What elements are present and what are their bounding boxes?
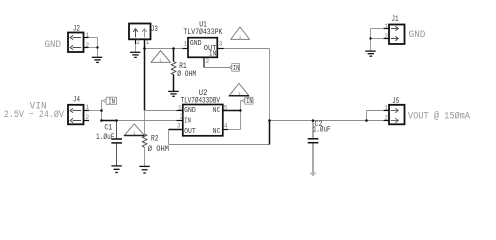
pin stub U2 pin4 [223,129,228,131]
wire U1 pin3 OUT right [224,48,270,50]
wire U1 pin2 to IN flag [204,67,230,69]
svg-text:GND: GND [409,30,426,41]
junction C2 on VOUT [312,119,315,122]
svg-text:1: 1 [86,104,90,111]
wire J5 pin1 [367,110,384,112]
junction R1 top [172,47,175,50]
ground arrow below C2 [310,173,316,176]
svg-text:J3: J3 [151,24,158,34]
ground below C1 [111,166,121,173]
pin stub U1 pin2 [203,57,205,67]
connector J1 body [389,25,405,45]
wire J1 to ground [370,39,372,51]
junction dots [96,37,371,122]
pin stubs U2 pin1 pin2 [177,110,183,112]
wire U2 pin1 GND [145,110,176,112]
svg-text:IN: IN [108,98,115,106]
svg-text:VOUT @ 15ØmA: VOUT @ 15ØmA [408,110,470,122]
capacitor C1 leads [117,121,314,172]
svg-text:2: 2 [86,114,90,121]
junction J3/GND wire [143,47,146,50]
svg-text:TLV7Ø433DBV: TLV7Ø433DBV [181,96,221,106]
wire U2 OUT down [168,130,170,145]
pin stubs J2 [84,37,89,39]
wire J2 pin1 to vertical [88,29,384,166]
pin stub U1 pin3 [218,48,224,50]
wire U2 pin5 NC (thick) [223,110,241,112]
junction NC tie [239,109,241,111]
pin stubs J5 [384,110,389,112]
svg-text:GND: GND [45,40,62,51]
net flag IN above U2 [242,97,253,106]
wire J2 vertical tie [97,38,99,48]
wire U2 pin3 OUT (thick) [169,129,183,131]
svg-text:IN: IN [233,65,239,73]
IC U2 body [183,105,223,136]
capacitor C2 plates [308,139,319,143]
svg-text:Ø OHM: Ø OHM [177,69,196,79]
svg-text:2: 2 [86,42,90,49]
junction J4 tie VIN [100,119,103,122]
svg-text:1: 1 [239,34,242,40]
svg-text:1: 1 [184,41,188,48]
junction J4 pin1 [100,109,103,112]
svg-text:GND: GND [190,40,202,48]
svg-text:GND: GND [184,107,196,115]
connector J3 body [129,24,151,40]
svg-text:2: 2 [136,39,140,46]
svg-text:1: 1 [133,131,136,137]
wire IN flag stub near J4 [102,101,104,120]
wire J3 pin2 to ground [135,44,137,53]
ground below J3 [130,52,140,57]
ground below R2 [139,166,149,173]
svg-text:2: 2 [384,114,388,121]
svg-text:J1: J1 [392,14,399,24]
net flag IN near U1 pin2 [229,64,239,74]
resistor R1 bottom lead [173,75,175,92]
svg-text:1: 1 [86,32,90,39]
junction VOUT node [268,119,271,122]
wire J2 pin2 to vertical [88,47,97,49]
wire VOUT column below junction (thick) [269,121,271,145]
wire J1 pin1 [371,28,384,30]
svg-text:2: 2 [384,33,388,40]
resistor R2 zigzag [142,134,147,148]
connector J5 body [389,105,405,125]
svg-text:3: 3 [177,122,181,129]
svg-text:TLV7Ø433PK: TLV7Ø433PK [183,27,223,37]
thick black net segments [102,39,270,144]
wire IN flag stub above U2 [241,101,243,111]
svg-text:J4: J4 [73,95,80,105]
wire J4 pin1 [89,110,102,112]
wire J1 pin2 [371,38,384,40]
svg-text:5: 5 [224,105,228,112]
wire U2 OUT bottom run [169,144,270,146]
wire GND net J3 to U1 pin1 [145,48,183,50]
svg-text:IN: IN [246,98,252,106]
svg-text:1: 1 [238,91,241,97]
pin stub U1 pin1 [183,48,189,50]
junction J1 pins tie [369,37,371,39]
resistor R1 top lead [173,49,175,62]
triangle note 1 near U1 [231,27,250,40]
junction J5 tie [365,119,368,122]
capacitor C2 leads [312,121,314,139]
wire J3 pin1 GND column (thick) [144,39,146,110]
pin stubs J1 [384,28,389,30]
svg-text:2.5V − 24.ØV: 2.5V − 24.ØV [4,109,64,121]
wire NC tie vertical [240,111,242,130]
svg-text:1.ØuF: 1.ØuF [96,132,115,142]
svg-text:IN: IN [209,51,216,59]
svg-text:1: 1 [384,104,388,111]
wire J2 to ground [97,48,99,58]
svg-text:1: 1 [384,23,388,30]
wire GND column above R2 [144,111,146,134]
ground below J1 [365,51,375,56]
svg-text:4: 4 [224,123,228,130]
triangle note 1 near J3 [151,51,170,64]
wire VOUT main run [270,120,384,122]
connector J2 body [68,33,84,53]
junction J2 pins tie [96,46,98,48]
triangle note 1 above U2 [229,83,249,96]
wire U1 OUT vertical down [269,49,271,121]
svg-text:OUT: OUT [184,128,196,136]
svg-text:C1: C1 [104,123,112,133]
svg-text:NC: NC [213,128,221,136]
ground below J2 [92,51,376,173]
svg-text:NC: NC [213,107,221,115]
svg-text:1: 1 [146,39,150,46]
svg-text:1: 1 [178,105,182,112]
ground below R1 [168,91,178,96]
component pin stubs (black) [84,29,390,130]
svg-text:Ø OHM: Ø OHM [148,144,169,154]
pin stub J3 pin2 [135,39,137,44]
svg-text:J2: J2 [73,23,80,33]
svg-text:J5: J5 [392,96,399,106]
net flag IN near J4 [103,97,116,106]
capacitor C1 plates [111,139,122,143]
svg-text:IN: IN [184,117,191,125]
wire R2 to ground [144,148,146,166]
svg-text:2: 2 [206,58,210,65]
op IC U1 body [188,38,217,58]
svg-text:1.ØuF: 1.ØuF [313,125,331,135]
wire J5 vertical tie [366,111,368,121]
wire U2 pin4 NC [228,129,241,131]
wire VIN thick segment J4 tie to C1 [102,120,117,122]
wire J1 vertical tie [370,29,372,39]
wire VIN to U2 pin2 [117,120,176,122]
resistor R1 zigzag [171,62,176,75]
connector J4 body [68,105,84,125]
junction C1 on VIN [115,119,118,122]
svg-text:R2: R2 [151,134,158,144]
svg-text:3: 3 [219,41,223,48]
svg-text:1: 1 [159,57,162,63]
triangle note 1 near C1 [124,124,144,137]
pin stubs J4 [84,110,90,112]
